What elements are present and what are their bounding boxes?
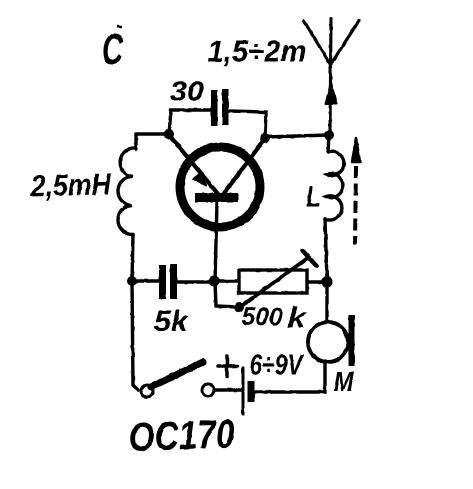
capacitor 5k left lead — [132, 279, 159, 282]
wire L coil top — [328, 135, 329, 152]
svg-text:OC170: OC170 — [128, 412, 235, 460]
wire L coil bottom to node D — [325, 219, 327, 281]
inductor L — [325, 151, 344, 220]
wiper return wire and node G — [215, 282, 244, 312]
node E (base junction) — [209, 276, 220, 287]
microphone M circle — [308, 322, 348, 362]
wire potentiometer to node D — [307, 280, 327, 283]
transistor base lead down — [215, 202, 217, 281]
antenna feed arrow — [326, 82, 337, 104]
wire battery to switch — [215, 388, 242, 391]
inductor 2,5mH (RF choke) — [118, 148, 136, 235]
label C (circuit title) — [102, 25, 124, 74]
switch S1 contacts — [141, 384, 214, 397]
battery plus sign — [218, 356, 237, 377]
svg-text:5k: 5k — [154, 305, 189, 338]
potentiometer 500k body — [239, 270, 307, 293]
node D (right rail) — [322, 277, 333, 288]
transistor emitter lead with arrow (PNP) — [170, 136, 218, 194]
wire microphone bottom — [255, 362, 325, 392]
capacitor 5k right lead — [177, 280, 213, 283]
dashed tuning arrow beside L — [352, 138, 360, 245]
svg-text:30: 30 — [170, 76, 204, 107]
svg-text:M: M — [334, 366, 355, 397]
svg-text:1,5÷2m: 1,5÷2m — [208, 34, 307, 69]
transistor collector lead — [222, 140, 264, 196]
wire left rail down to switch — [132, 281, 138, 390]
wire top right (B to antenna node) — [265, 135, 329, 137]
node A (left of 30pF) — [164, 129, 174, 139]
wire node A to coil top — [136, 134, 169, 149]
battery 6÷9V plates — [243, 368, 255, 414]
svg-text:L: L — [306, 181, 321, 214]
svg-text:k: k — [287, 302, 308, 335]
wire node D to microphone — [325, 282, 328, 322]
microphone M diaphragm bar — [349, 315, 355, 366]
capacitor 5k plates — [159, 264, 177, 299]
svg-text:2,5mH: 2,5mH — [29, 167, 112, 203]
wire coil bottom to node F — [132, 235, 133, 282]
wire node E to potentiometer — [214, 279, 240, 282]
node B (right of 30pF) — [260, 133, 270, 143]
transistor Q1 OC170 circle — [180, 147, 260, 227]
node junction antenna/L/top wire — [324, 130, 334, 140]
svg-text:6÷9V: 6÷9V — [250, 350, 305, 382]
switch S1 lever — [151, 362, 203, 387]
potentiometer 500k wiper arrow — [240, 251, 317, 308]
capacitor C 30pF left lead — [169, 110, 211, 134]
antenna — [304, 19, 359, 135]
node F (left rail / 5k) — [127, 276, 137, 286]
svg-text:500: 500 — [241, 302, 283, 331]
label 500k — [241, 301, 308, 335]
svg-text:C: C — [102, 25, 124, 74]
transistor base bar — [195, 193, 238, 202]
capacitor C 30pF right lead — [229, 111, 267, 137]
capacitor C 30pF plates — [211, 89, 229, 126]
